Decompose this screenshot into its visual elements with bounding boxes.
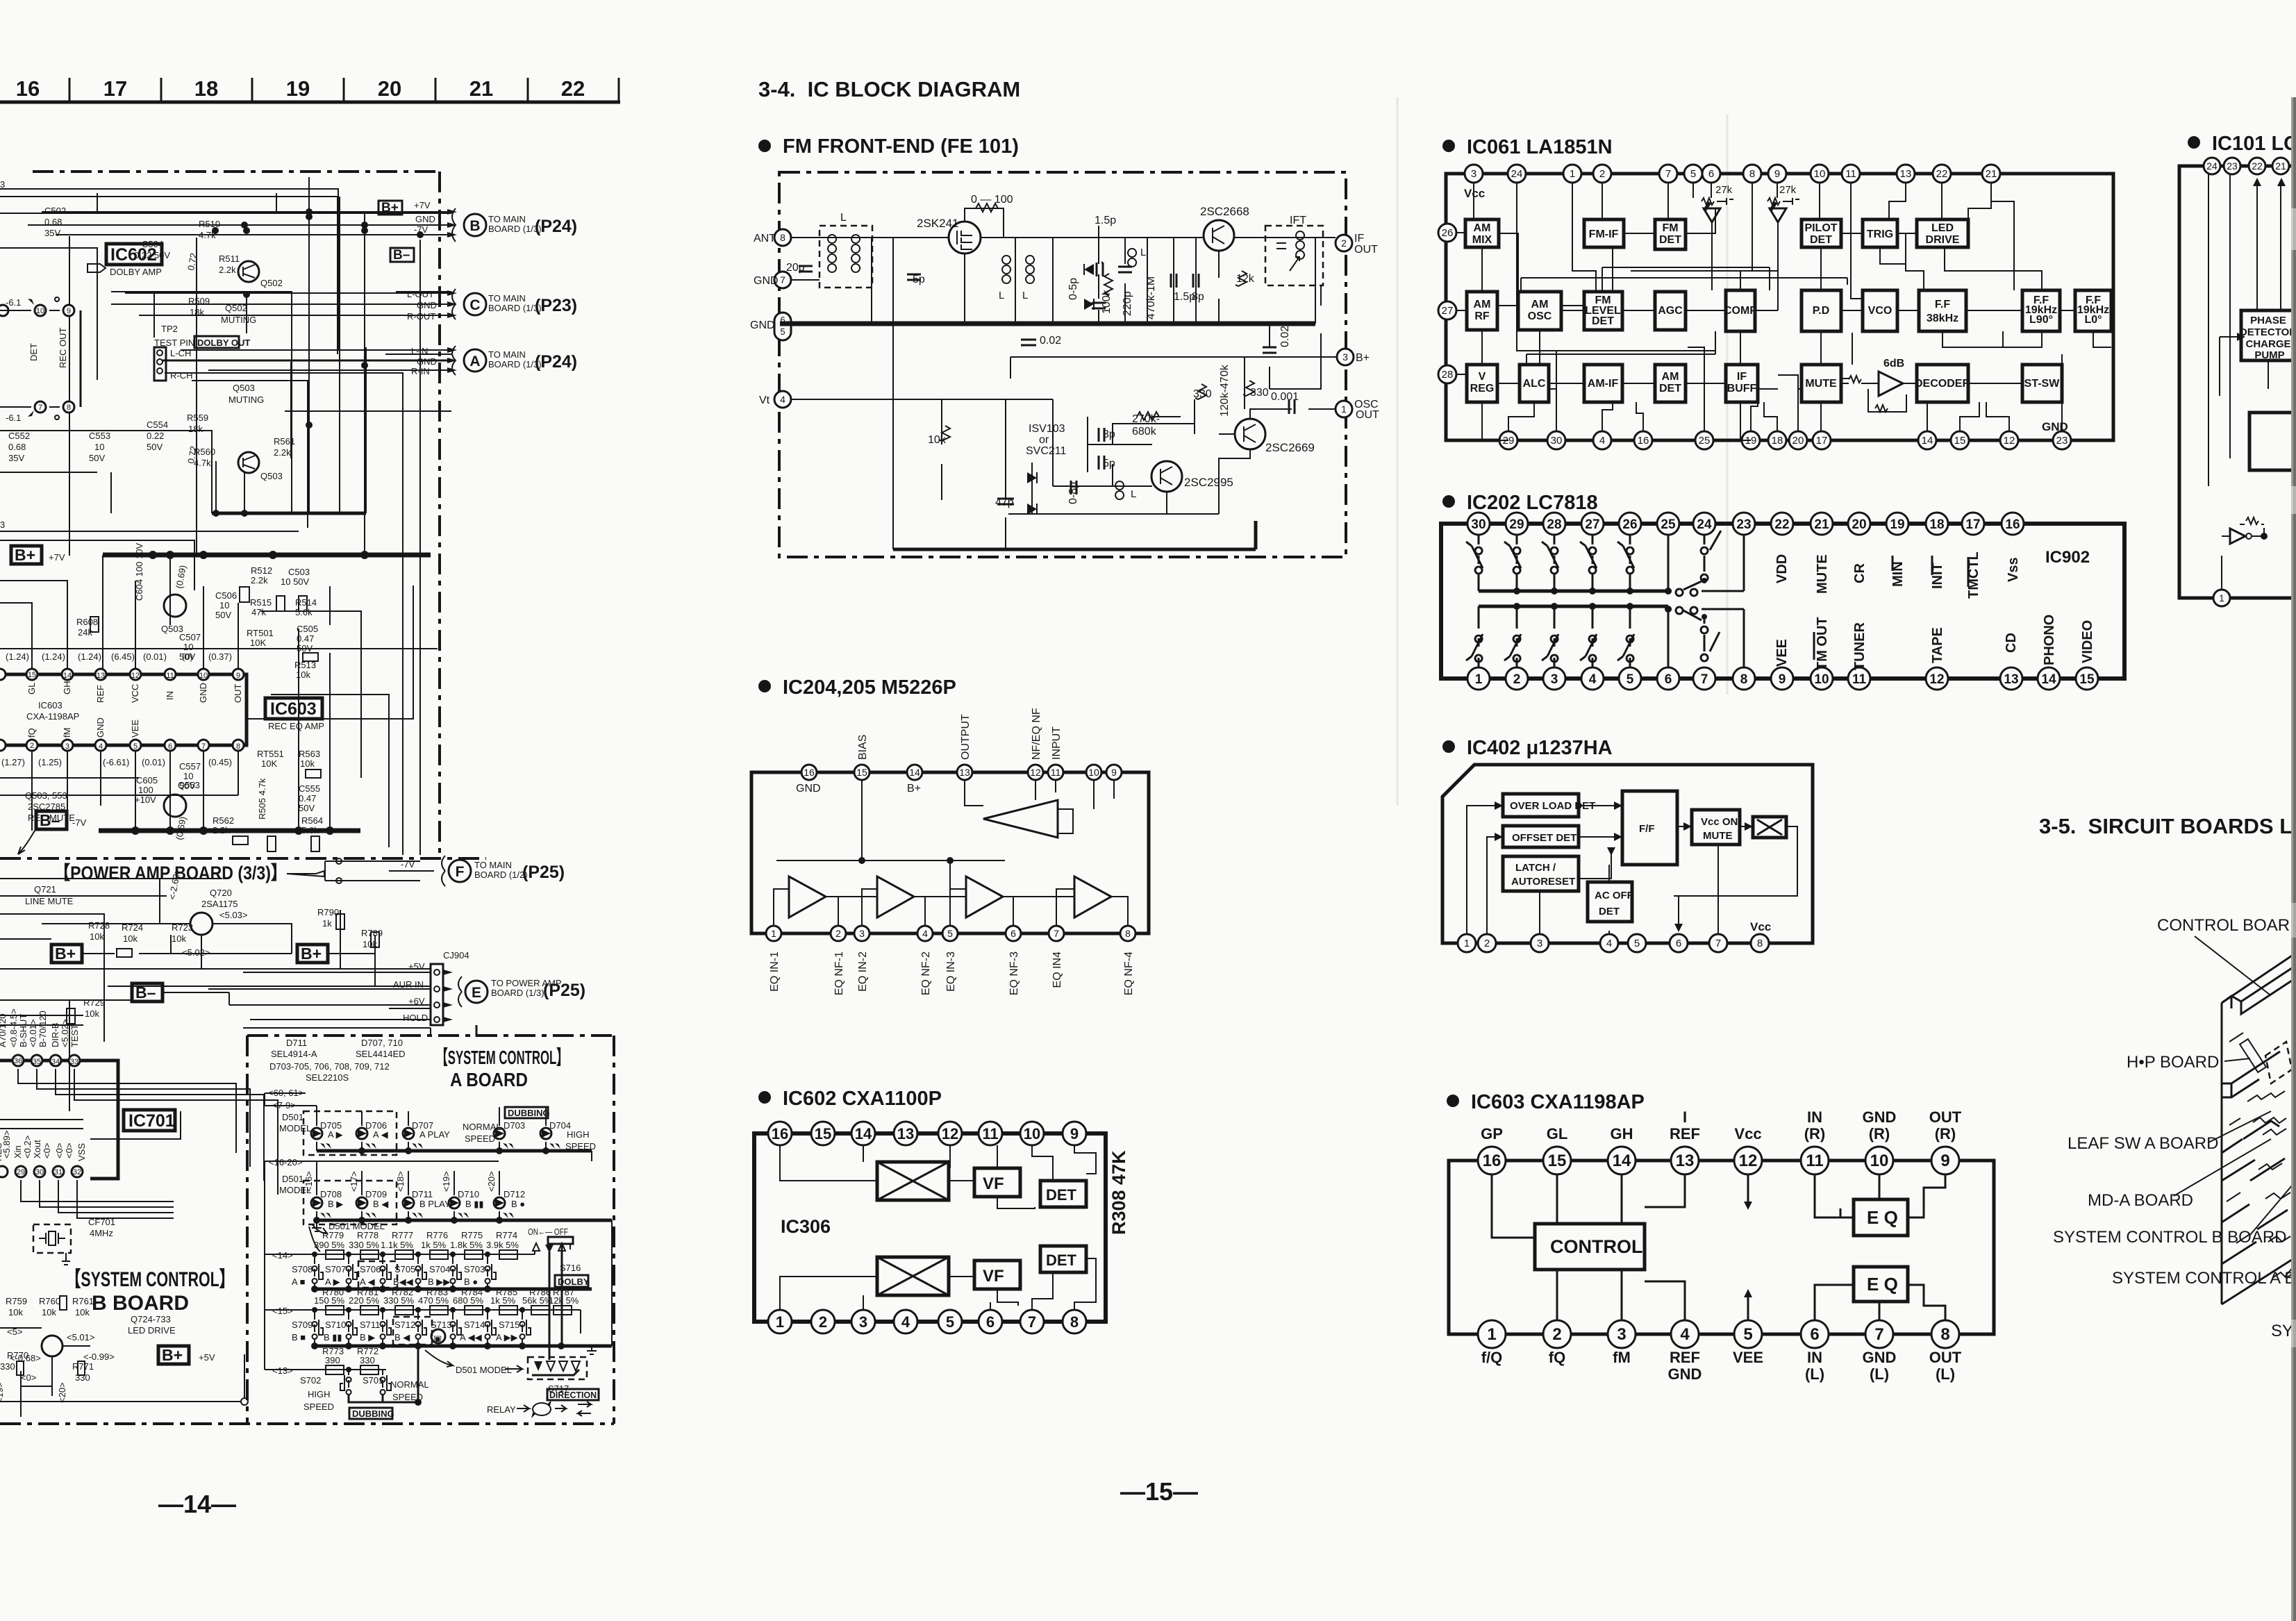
svg-text:330 5%: 330 5%	[349, 1240, 380, 1250]
svg-text:29: 29	[1509, 517, 1524, 532]
svg-text:L: L	[1131, 488, 1136, 500]
svg-text:SEL4914-A: SEL4914-A	[271, 1049, 317, 1059]
svg-text:<5.02>: <5.02>	[60, 1020, 70, 1048]
svg-text:14: 14	[63, 672, 72, 680]
svg-text:3: 3	[65, 742, 69, 751]
svg-text:330: 330	[1250, 387, 1269, 399]
svg-text:TO MAIN: TO MAIN	[488, 214, 526, 224]
svg-text:390: 390	[325, 1355, 340, 1365]
svg-text:GND: GND	[198, 683, 208, 703]
svg-text:AM-IF: AM-IF	[1588, 378, 1619, 390]
svg-text:R777: R777	[392, 1230, 413, 1240]
svg-text:L-OUT: L-OUT	[407, 289, 434, 299]
svg-text:IC402 μ1237HA: IC402 μ1237HA	[1467, 737, 1613, 759]
svg-text:Vcc: Vcc	[1750, 920, 1771, 933]
svg-text:10k: 10k	[123, 933, 138, 944]
svg-text:(L): (L)	[1870, 1365, 1889, 1383]
svg-text:7: 7	[201, 742, 206, 751]
svg-text:BOARD (1/3): BOARD (1/3)	[488, 303, 542, 313]
svg-text:L: L	[840, 212, 847, 224]
svg-text:CONTROL: CONTROL	[1550, 1236, 1642, 1257]
svg-text:12: 12	[942, 1125, 958, 1142]
svg-text:R515: R515	[250, 597, 272, 608]
svg-text:Vcc ON: Vcc ON	[1701, 816, 1738, 828]
svg-text:ST-SW: ST-SW	[2024, 378, 2061, 390]
svg-text:C553: C553	[89, 431, 110, 441]
svg-text:SPEED: SPEED	[465, 1133, 495, 1144]
svg-text:R728: R728	[88, 920, 110, 931]
svg-text:B ▮▮: B ▮▮	[324, 1332, 342, 1342]
svg-text:10: 10	[1814, 168, 1826, 180]
svg-text:3p: 3p	[1103, 429, 1115, 440]
svg-text:5: 5	[1634, 938, 1640, 949]
svg-text:<5.02>: <5.02>	[182, 947, 210, 958]
svg-text:DET: DET	[1599, 906, 1620, 917]
svg-text:2SC2669: 2SC2669	[1265, 441, 1315, 454]
svg-text:1k: 1k	[322, 918, 332, 929]
svg-text:<0>: <0>	[64, 1143, 74, 1158]
svg-text:100: 100	[138, 785, 153, 795]
svg-text:8p: 8p	[1192, 291, 1204, 303]
svg-text:2.2k: 2.2k	[251, 575, 268, 585]
svg-text:12: 12	[2004, 435, 2015, 447]
svg-text:R775: R775	[461, 1230, 483, 1240]
svg-text:CHARGE: CHARGE	[2245, 338, 2290, 350]
svg-text:B+: B+	[907, 783, 921, 795]
svg-text:D711: D711	[412, 1189, 433, 1199]
svg-text:27: 27	[1585, 517, 1599, 532]
svg-text:OFFSET DET: OFFSET DET	[1512, 832, 1577, 844]
svg-text:H•P BOARD: H•P BOARD	[2127, 1053, 2219, 1072]
svg-text:LEAF SW A BOARD: LEAF SW A BOARD	[2068, 1134, 2218, 1153]
svg-text:9: 9	[1779, 672, 1786, 687]
svg-text:6: 6	[1676, 938, 1681, 949]
svg-text:22: 22	[2252, 160, 2263, 172]
svg-text:TO MAIN: TO MAIN	[488, 349, 526, 360]
svg-text:30: 30	[1471, 517, 1486, 532]
svg-text:47p: 47p	[995, 497, 1014, 508]
svg-text:18k: 18k	[190, 307, 204, 317]
svg-text:2: 2	[1341, 238, 1347, 249]
svg-text:IC101 LC7: IC101 LC7	[2212, 133, 2296, 155]
svg-text:1k 5%: 1k 5%	[421, 1240, 447, 1250]
svg-text:D709: D709	[365, 1189, 387, 1199]
svg-text:10 50V: 10 50V	[281, 576, 310, 587]
svg-text:B+: B+	[301, 945, 322, 963]
svg-text:IC603 CXA1198AP: IC603 CXA1198AP	[1471, 1091, 1645, 1113]
svg-text:VSS: VSS	[76, 1143, 87, 1161]
svg-text:27: 27	[1442, 305, 1454, 317]
svg-text:R729: R729	[83, 997, 105, 1008]
svg-text:7: 7	[780, 274, 785, 285]
svg-text:SVC211: SVC211	[1026, 445, 1067, 457]
svg-text:REC EQ AMP: REC EQ AMP	[268, 721, 324, 731]
svg-text:IF: IF	[1354, 233, 1364, 244]
svg-text:CD: CD	[2004, 633, 2019, 653]
svg-text:0.47: 0.47	[297, 633, 314, 644]
svg-text:B–: B–	[393, 248, 410, 263]
svg-text:F: F	[456, 864, 465, 880]
svg-text:<-0.99>: <-0.99>	[83, 1352, 115, 1362]
svg-text:4: 4	[780, 394, 785, 405]
svg-text:L: L	[1022, 290, 1028, 301]
svg-text:0.68: 0.68	[8, 442, 26, 452]
svg-text:10: 10	[94, 442, 104, 452]
svg-text:17: 17	[103, 76, 127, 101]
svg-text:16: 16	[1638, 435, 1649, 447]
svg-text:<0.8-4.5>: <0.8-4.5>	[8, 1008, 19, 1047]
svg-text:10k: 10k	[85, 1008, 99, 1019]
svg-text:7: 7	[1665, 168, 1671, 180]
svg-text:AM: AM	[1474, 222, 1491, 234]
svg-text:IC202 LC7818: IC202 LC7818	[1467, 492, 1598, 514]
svg-text:6: 6	[1665, 672, 1672, 687]
svg-text:<5.89>: <5.89>	[1, 1131, 12, 1159]
svg-text:L: L	[1140, 247, 1146, 258]
svg-text:S711: S711	[360, 1320, 380, 1330]
svg-text:50V: 50V	[89, 453, 105, 463]
svg-text:B–: B–	[40, 811, 60, 829]
svg-text:<0>: <0>	[54, 1143, 65, 1158]
svg-text:13: 13	[897, 1125, 914, 1142]
svg-text:10k: 10k	[8, 1307, 23, 1317]
svg-text:11: 11	[1051, 767, 1061, 778]
svg-text:BIAS: BIAS	[857, 735, 869, 760]
svg-text:0.68: 0.68	[44, 217, 62, 227]
svg-text:PUMP: PUMP	[2254, 349, 2284, 361]
svg-text:10: 10	[199, 672, 208, 680]
svg-text:DET: DET	[1046, 1186, 1077, 1204]
svg-text:19: 19	[1890, 517, 1904, 532]
svg-text:V: V	[1479, 371, 1486, 383]
svg-text:11: 11	[1845, 168, 1856, 180]
svg-text:NF/EQ NF: NF/EQ NF	[1031, 708, 1042, 760]
svg-text:D501: D501	[282, 1174, 303, 1184]
svg-text:S702: S702	[300, 1375, 321, 1386]
svg-text:330 5%: 330 5%	[383, 1295, 415, 1306]
svg-text:HIGH: HIGH	[567, 1129, 590, 1140]
svg-text:B PLAY: B PLAY	[419, 1199, 451, 1209]
svg-text:Xout: Xout	[32, 1140, 42, 1158]
svg-text:10k: 10k	[928, 434, 947, 446]
svg-text:GL: GL	[26, 683, 37, 695]
svg-text:C507: C507	[179, 632, 201, 642]
svg-text:31: 31	[54, 1168, 63, 1177]
svg-text:26: 26	[1622, 517, 1637, 532]
svg-text:4.7k: 4.7k	[194, 458, 211, 468]
svg-text:2: 2	[1484, 938, 1490, 949]
svg-text:5: 5	[780, 326, 785, 337]
svg-text:NORMAL: NORMAL	[390, 1379, 429, 1390]
svg-text:34: 34	[51, 1058, 60, 1066]
svg-text:(-6.61): (-6.61)	[103, 757, 129, 767]
svg-text:0-8p: 0-8p	[1067, 482, 1079, 504]
svg-text:-6.1: -6.1	[6, 413, 21, 423]
svg-text:Vt: Vt	[759, 394, 770, 406]
svg-text:Vcc: Vcc	[1464, 187, 1485, 200]
svg-text:DET: DET	[1046, 1252, 1077, 1269]
svg-text:470k-1M: 470k-1M	[1145, 276, 1157, 319]
svg-text:DRIVE: DRIVE	[1926, 234, 1960, 246]
svg-text:4: 4	[1599, 435, 1605, 447]
svg-text:S706: S706	[360, 1264, 381, 1274]
svg-text:ON←— OFF: ON←— OFF	[528, 1227, 568, 1237]
svg-text:3: 3	[1471, 168, 1476, 180]
svg-text:MUTE: MUTE	[1703, 830, 1733, 842]
svg-text:SPEED: SPEED	[303, 1402, 334, 1412]
svg-text:R774: R774	[496, 1230, 517, 1240]
svg-text:4: 4	[99, 742, 103, 751]
svg-text:9: 9	[1070, 1125, 1079, 1142]
svg-text:8: 8	[1125, 928, 1131, 939]
svg-text:270k-: 270k-	[1132, 413, 1160, 425]
svg-text:B+: B+	[381, 201, 399, 215]
svg-text:7: 7	[1054, 928, 1059, 939]
svg-text:24: 24	[2206, 160, 2218, 172]
svg-text:<5.03>: <5.03>	[219, 910, 248, 920]
svg-text:4: 4	[901, 1313, 910, 1331]
svg-text:C502: C502	[44, 206, 66, 216]
svg-text:2.2k: 2.2k	[274, 447, 291, 458]
svg-text:2: 2	[819, 1313, 827, 1331]
svg-text:VCO: VCO	[1868, 305, 1892, 317]
svg-text:OUT: OUT	[1354, 244, 1378, 256]
svg-text:Q503, 553: Q503, 553	[25, 790, 67, 801]
svg-text:A ▶: A ▶	[328, 1129, 343, 1140]
svg-text:15: 15	[2079, 672, 2095, 687]
svg-text:2: 2	[30, 742, 34, 750]
svg-text:AUTORESET: AUTORESET	[1511, 876, 1575, 888]
svg-text:21: 21	[1986, 168, 1997, 180]
svg-text:SEL2210S: SEL2210S	[306, 1072, 349, 1083]
svg-text:15: 15	[1954, 435, 1966, 447]
svg-text:LED DRIVE: LED DRIVE	[128, 1325, 176, 1336]
svg-text:DUBBING: DUBBING	[508, 1108, 550, 1118]
svg-text:R-OUT: R-OUT	[407, 311, 435, 322]
svg-text:S709: S709	[292, 1320, 313, 1330]
svg-text:21: 21	[469, 76, 493, 101]
svg-text:35V: 35V	[8, 453, 24, 463]
svg-text:220 5%: 220 5%	[349, 1295, 380, 1306]
svg-text:16: 16	[16, 76, 40, 101]
svg-text:5: 5	[1743, 1325, 1752, 1344]
svg-text:680 5%: 680 5%	[453, 1295, 484, 1306]
svg-text:R509: R509	[188, 296, 210, 306]
svg-text:TO MAIN: TO MAIN	[488, 293, 526, 304]
svg-text:6: 6	[1010, 928, 1016, 939]
svg-text:COMP: COMP	[1724, 305, 1757, 317]
svg-text:32: 32	[73, 1168, 81, 1177]
svg-text:18: 18	[1772, 435, 1783, 447]
svg-text:27k: 27k	[1715, 184, 1733, 196]
svg-text:29: 29	[17, 1168, 25, 1177]
svg-text:19: 19	[286, 76, 310, 101]
svg-text:1k 5%: 1k 5%	[490, 1295, 516, 1306]
svg-text:(P24): (P24)	[535, 217, 577, 236]
svg-text:TM OUT: TM OUT	[1815, 617, 1830, 670]
svg-text:2: 2	[1599, 168, 1605, 180]
svg-text:+7V: +7V	[49, 552, 65, 563]
svg-text:6dB: 6dB	[1883, 358, 1904, 369]
svg-text:Vcc: Vcc	[1734, 1125, 1761, 1142]
svg-text:MIX: MIX	[1472, 234, 1492, 246]
svg-text:23: 23	[2227, 160, 2238, 172]
svg-text:<13>: <13>	[272, 1365, 293, 1376]
svg-text:A ◀: A ◀	[373, 1129, 388, 1140]
svg-text:38kHz: 38kHz	[1927, 313, 1958, 324]
svg-text:IC603: IC603	[38, 700, 63, 710]
svg-text:6: 6	[1708, 168, 1714, 180]
svg-text:C552: C552	[8, 431, 30, 441]
svg-text:25: 25	[1661, 517, 1676, 532]
svg-text:SEL4414ED: SEL4414ED	[356, 1049, 406, 1059]
svg-text:2: 2	[1552, 1325, 1561, 1344]
svg-text:B-SHUT: B-SHUT	[18, 1014, 28, 1047]
svg-text:1.5p: 1.5p	[1095, 215, 1116, 226]
svg-text:EQ NF-1: EQ NF-1	[833, 951, 845, 995]
svg-text:22: 22	[1936, 168, 1948, 180]
svg-text:12: 12	[1739, 1152, 1758, 1170]
svg-text:A: A	[469, 354, 480, 369]
svg-text:IC902: IC902	[2045, 548, 2090, 567]
svg-text:AGC: AGC	[1658, 305, 1683, 317]
svg-text:LED: LED	[1931, 222, 1954, 234]
svg-text:R564: R564	[301, 815, 323, 826]
svg-text:DETECTOR: DETECTOR	[2240, 326, 2296, 338]
svg-text:IC306: IC306	[781, 1216, 831, 1237]
svg-text:8: 8	[1749, 168, 1755, 180]
svg-text:C504: C504	[142, 239, 163, 249]
svg-text:3-5. SIRCUIT BOARDS LOCA: 3-5. SIRCUIT BOARDS LOCA	[2039, 814, 2296, 838]
svg-text:OUT: OUT	[1929, 1108, 1962, 1126]
svg-text:Q503: Q503	[233, 383, 255, 393]
svg-text:22: 22	[1774, 517, 1789, 532]
svg-text:C554: C554	[147, 419, 168, 430]
svg-text:DECODER: DECODER	[1915, 378, 1970, 390]
svg-text:CF701: CF701	[88, 1217, 115, 1227]
svg-text:+7V: +7V	[414, 200, 431, 210]
svg-text:—14—: —14—	[158, 1490, 236, 1518]
svg-text:R779: R779	[322, 1230, 344, 1240]
svg-text:3-4. IC BLOCK DIAGRAM: 3-4. IC BLOCK DIAGRAM	[758, 77, 1020, 101]
svg-text:R-CH: R-CH	[170, 370, 193, 381]
svg-text:100k: 100k	[1101, 289, 1113, 314]
svg-text:B ▶▶: B ▶▶	[428, 1277, 450, 1287]
svg-text:<19>: <19>	[0, 1382, 5, 1403]
svg-text:0.02: 0.02	[1040, 335, 1061, 347]
svg-text:R776: R776	[426, 1230, 448, 1240]
svg-text:VF: VF	[983, 1174, 1004, 1193]
svg-text:A ◀◀: A ◀◀	[460, 1332, 482, 1342]
svg-text:10: 10	[1088, 767, 1099, 778]
svg-text:F.F: F.F	[1935, 299, 1950, 310]
svg-text:DIR-B: DIR-B	[50, 1023, 60, 1047]
svg-text:11: 11	[982, 1125, 998, 1142]
svg-text:Q721: Q721	[34, 884, 56, 895]
svg-text:TRIG: TRIG	[1867, 228, 1893, 240]
svg-text:DET: DET	[1592, 315, 1614, 327]
svg-text:TUNER: TUNER	[1852, 622, 1867, 670]
svg-text:GH: GH	[1611, 1125, 1633, 1142]
svg-text:fQ: fQ	[26, 728, 37, 738]
svg-text:TEST: TEST	[69, 1024, 80, 1047]
svg-text:3: 3	[859, 928, 865, 939]
svg-text:NORMAL: NORMAL	[463, 1122, 501, 1132]
svg-text:-6.1: -6.1	[6, 297, 21, 308]
svg-text:MUTE: MUTE	[1815, 554, 1830, 594]
svg-text:S712: S712	[394, 1320, 415, 1330]
svg-text:REF: REF	[95, 685, 106, 703]
svg-text:L-IN: L-IN	[411, 346, 429, 356]
svg-text:D707, 710: D707, 710	[361, 1038, 403, 1048]
svg-text:B ▶: B ▶	[360, 1332, 375, 1342]
svg-text:8: 8	[780, 232, 785, 243]
svg-text:B+: B+	[1356, 352, 1370, 364]
svg-text:GND: GND	[1863, 1349, 1897, 1366]
svg-text:GND: GND	[1863, 1108, 1897, 1126]
svg-text:CONTROL BOARD: CONTROL BOARD	[2157, 916, 2296, 935]
svg-text:R761: R761	[72, 1296, 94, 1306]
svg-text:R759: R759	[6, 1296, 27, 1306]
svg-text:3: 3	[0, 519, 5, 530]
svg-text:+5V: +5V	[408, 961, 425, 972]
svg-text:EQ NF-2: EQ NF-2	[920, 951, 932, 995]
svg-text:C557: C557	[179, 761, 201, 772]
svg-text:S707: S707	[325, 1264, 346, 1274]
svg-text:S715: S715	[499, 1320, 519, 1330]
svg-text:ISV103: ISV103	[1029, 423, 1065, 435]
svg-text:BUFF: BUFF	[1727, 383, 1757, 394]
svg-text:S713: S713	[431, 1320, 451, 1330]
svg-text:50V: 50V	[215, 610, 231, 620]
svg-text:<0.01>: <0.01>	[28, 1020, 38, 1048]
svg-text:<16-20>: <16-20>	[269, 1157, 302, 1167]
svg-text:(0.01): (0.01)	[143, 651, 167, 662]
svg-text:13: 13	[959, 767, 970, 778]
svg-text:10k: 10k	[42, 1307, 56, 1317]
svg-text:50V: 50V	[297, 643, 313, 654]
svg-text:27k: 27k	[1779, 184, 1797, 196]
svg-text:(6.45): (6.45)	[111, 651, 135, 662]
svg-text:(1.24): (1.24)	[6, 651, 29, 662]
svg-text:3: 3	[859, 1313, 867, 1331]
svg-text:IC701: IC701	[128, 1111, 175, 1131]
svg-text:R561: R561	[274, 436, 295, 447]
svg-text:2.2k: 2.2k	[219, 265, 236, 275]
svg-text:EQ NF-4: EQ NF-4	[1123, 951, 1135, 995]
svg-text:or: or	[1039, 434, 1049, 446]
svg-text:1: 1	[1487, 1325, 1496, 1344]
svg-text:R771: R771	[72, 1361, 94, 1372]
svg-text:C: C	[469, 297, 480, 313]
svg-text:Vss: Vss	[2006, 557, 2021, 582]
svg-text:OUT: OUT	[1356, 409, 1379, 421]
svg-text:IFT: IFT	[1290, 215, 1306, 226]
svg-text:0.001: 0.001	[1271, 391, 1299, 403]
svg-text:12: 12	[131, 672, 140, 680]
svg-text:4: 4	[1606, 938, 1612, 949]
svg-text:35: 35	[33, 1058, 41, 1066]
svg-text:4MHz: 4MHz	[90, 1228, 113, 1238]
svg-text:0 — 100: 0 — 100	[971, 194, 1013, 206]
svg-text:8: 8	[236, 742, 240, 751]
svg-text:5.6k: 5.6k	[295, 607, 313, 617]
svg-text:VEE: VEE	[1774, 639, 1790, 667]
svg-text:Q502: Q502	[225, 303, 247, 313]
svg-text:B ◀: B ◀	[394, 1332, 410, 1342]
svg-text:fQ: fQ	[1549, 1349, 1565, 1366]
svg-text:B-70/120: B-70/120	[38, 1011, 48, 1047]
